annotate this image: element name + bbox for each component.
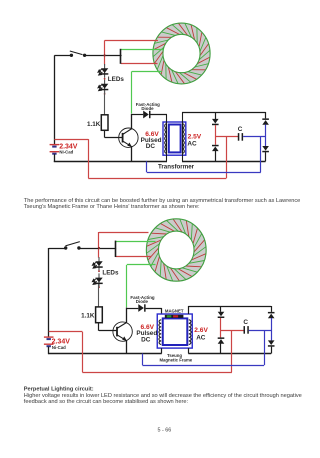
wire: switch to winding bar [79, 248, 116, 250]
svg-text:DC: DC [146, 143, 156, 150]
svg-text:5 - 66: 5 - 66 [158, 428, 172, 434]
wire: top rail to bridge diode D2 [215, 112, 217, 119]
Tseung frame core [157, 314, 192, 348]
wire: D3 to bottom rail [215, 151, 217, 161]
wire: + output drop [231, 330, 233, 372]
wire: collector to diode node [126, 308, 128, 324]
svg-text:2.6V: 2.6V [194, 327, 208, 334]
wire: red feedback bottom wire [88, 178, 226, 180]
wire: corner to switch contact [49, 248, 66, 250]
wire: D2 to + rail (red) [215, 125, 217, 137]
svg-text:Ni-Cad: Ni-Cad [59, 150, 73, 155]
wire: + output drop to red feedback wire [226, 137, 228, 178]
svg-text:MAGNET: MAGNET [165, 308, 184, 313]
resistor R2 1.1K [96, 307, 103, 323]
LED D8 [98, 273, 100, 287]
wire: + mid rail to capacitor [215, 136, 238, 138]
bridge bottom rail (secondary side) [182, 161, 266, 163]
capacitor C2 [244, 326, 246, 334]
bridge diode D5 (bottom-right, down) [262, 146, 269, 151]
wire: diode to frame top left lead [146, 308, 162, 310]
wire: diode to transformer primary top [151, 114, 168, 116]
wire: + rail to D11 [220, 330, 222, 337]
wire: node to fast diode [127, 308, 139, 310]
bridge top rail [188, 306, 271, 308]
svg-text:Perpetual Lighting circuit:: Perpetual Lighting circuit: [24, 387, 94, 393]
transformer TR1 windings [165, 124, 167, 154]
battery B2 2.34V Ni-Cad [44, 336, 54, 338]
wire: red riser / battery plus loop [82, 332, 84, 373]
bridge top rail [182, 112, 266, 114]
wire: red vertical to LED string [98, 232, 100, 258]
bridge bottom rail [188, 353, 271, 355]
wire: battery minus down to rail [54, 154, 56, 162]
LED D7 [98, 257, 100, 271]
wire: bottom rail (primary side) [54, 161, 167, 163]
wire: collector up to diode node [131, 114, 133, 129]
wire: top rail to D10 [220, 306, 222, 312]
wire: toroid green lead lower + green vertical to diode node [132, 71, 162, 73]
toroid L1 [158, 29, 205, 79]
transformer TR1 core [163, 122, 186, 155]
junction dot at switch/LED node [98, 247, 100, 249]
wire: battery minus to rail [48, 347, 50, 354]
wire: D5 to bottom rail [265, 152, 267, 161]
switch S1 [70, 54, 73, 57]
svg-text:C: C [238, 126, 243, 133]
wire: - output drop (blue) [264, 330, 266, 365]
wire: switch to winding bar [85, 55, 122, 57]
svg-text:LEDs: LEDs [102, 269, 119, 276]
svg-text:Diode: Diode [136, 299, 149, 304]
wire: LED string to resistor [104, 90, 106, 115]
winding connection bar [120, 49, 122, 64]
wire: toroid green lead upper [116, 241, 156, 243]
transistor Q2 [113, 322, 132, 341]
svg-text:AC: AC [187, 141, 197, 148]
wire: + rail to bottom-left diode [215, 137, 217, 145]
wire: toroid red lead top [99, 232, 149, 234]
svg-text:Magnetic Frame: Magnetic Frame [159, 357, 192, 362]
LED D1 [104, 64, 106, 78]
svg-text:1.1K: 1.1K [87, 121, 101, 128]
wire: resistor to base [98, 323, 100, 331]
wire: D4 to mid (blue) [265, 125, 267, 147]
switch S2 [64, 246, 67, 249]
transistor Q1 [119, 128, 138, 147]
svg-text:Higher voltage results in lowe: Higher voltage results in lower LED resi… [24, 393, 302, 399]
wire: blue hook to ground rail [142, 354, 144, 366]
wire: toroid red lead top [105, 40, 158, 42]
resistor R1 1.1K [101, 115, 108, 131]
svg-text:DC: DC [141, 337, 151, 344]
svg-text:AC: AC [196, 334, 206, 341]
toroid L2 [152, 225, 200, 275]
wire: battery to switch (left vertical top) [54, 55, 56, 144]
bridge diode D2 (top-left, down) [212, 119, 219, 124]
junction dots on LED string [104, 78, 106, 80]
wire: switch wire from corner to left contact [54, 55, 71, 57]
bridge diode D13 (bottom-right, down) [268, 340, 275, 345]
svg-text:Ni-Cad: Ni-Cad [52, 345, 66, 350]
wire: red vertical from toroid lead to LED string [104, 40, 106, 64]
wire: emitter down to ground rail [131, 147, 133, 162]
wire: - output drop (blue) [260, 137, 262, 172]
wire: toroid red lead lower [121, 63, 158, 65]
svg-text:The performance of this circui: The performance of this circuit can be b… [24, 198, 301, 204]
svg-text:Diode: Diode [141, 106, 154, 111]
fast-acting diode D6 [143, 111, 149, 119]
wire: toroid red lead lower [116, 256, 152, 258]
svg-text:feedback and so the circuit ca: feedback and so the circuit can become s… [24, 399, 189, 405]
bridge diode D4 (top-right, up) [262, 118, 269, 120]
wire: D12 to mid (blue) [271, 318, 273, 340]
transformer TR1 primary lead (left winding wire) [166, 115, 168, 162]
transformer TR1 secondary lead (right winding wire) [182, 112, 184, 161]
magnet bar [165, 315, 184, 318]
junction dots [98, 270, 100, 272]
wire: blue return bottom wire [147, 172, 261, 174]
fast-acting diode D9 [138, 304, 144, 312]
wire: toroid green lead lower + vertical to diode node [127, 264, 156, 266]
wire: top rail to bridge diode D4 [265, 112, 267, 118]
bridge diode D11 (bottom-left, up) [218, 337, 225, 339]
wire: blue return bottom [143, 365, 265, 367]
wire: emitter to ground rail [126, 341, 128, 354]
wire: capacitor to - rail (blue) [243, 136, 266, 138]
bridge diode D12 (top-right, up) [268, 312, 275, 314]
wire: D11 to bottom rail [220, 344, 222, 354]
frame windings [159, 320, 161, 345]
wire: + mid rail to capacitor [221, 330, 244, 332]
battery B1 2.34V Ni-Cad [50, 144, 60, 146]
wire: LED string to resistor [98, 284, 100, 307]
frame bottom leads [161, 348, 163, 353]
wire: D13 to bottom rail [271, 347, 273, 354]
LED D2 [104, 80, 106, 94]
wire: resistor to base [104, 130, 106, 137]
junction dot at switch/LED node [104, 54, 106, 56]
svg-text:1.1K: 1.1K [81, 312, 95, 319]
wire: red feedback riser to battery plus [88, 139, 90, 178]
svg-text:Transformer: Transformer [158, 163, 195, 170]
wire: frame top right lead [188, 306, 190, 314]
wire: bottom rail (primary) [48, 353, 162, 355]
bridge diode D3 (bottom-left, up) [212, 145, 219, 147]
wire: red feedback bottom [82, 372, 232, 374]
wire: diode node to fast diode [132, 114, 143, 116]
wire: D10 to + rail [220, 318, 222, 330]
svg-text:LEDs: LEDs [108, 76, 125, 83]
wire: capacitor to - rail [249, 330, 271, 332]
svg-text:C: C [243, 319, 248, 326]
winding connection bar [115, 241, 117, 257]
wire: top rail to D12 [271, 306, 273, 312]
wire: toroid green lead upper [121, 49, 163, 51]
capacitor C [238, 133, 240, 141]
svg-text:Tseung’s Magnetic Frame or Tha: Tseung’s Magnetic Frame or Thane Heins’ … [24, 204, 200, 210]
bridge diode D10 (top-left, down) [218, 312, 225, 317]
wire: blue hook to primary ground rail [146, 161, 148, 172]
wire: left vertical battery to switch [48, 248, 50, 337]
